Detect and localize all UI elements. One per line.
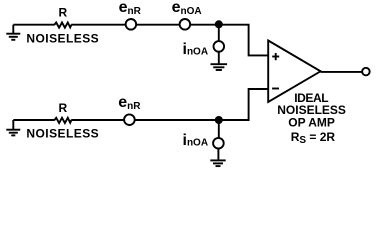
- voltage noise source enOA: [180, 19, 191, 30]
- op-amp U1 (ideal noiseless) triangle: [268, 41, 320, 103]
- wire: bottom rail from GND3 to resistor R (bottom): [13, 119, 55, 121]
- current noise source inOA (top): [214, 41, 225, 52]
- ground GND3 (bottom-left input): [6, 120, 20, 135]
- svg-text:inOA: inOA: [183, 41, 209, 58]
- svg-text:NOISELESS: NOISELESS: [26, 31, 99, 45]
- svg-text:enOA: enOA: [172, 0, 202, 17]
- current noise source inOA (bottom): [213, 138, 224, 149]
- op-amp − input symbol: [272, 88, 279, 90]
- svg-text:enR: enR: [118, 94, 141, 112]
- svg-text:inOA: inOA: [183, 132, 209, 149]
- wire: top junction down to inOA source: [218, 25, 220, 42]
- junction: bottom node (to inOA bottom): [215, 116, 223, 124]
- label: IDEAL NOISELESS OP AMP (op-amp description): [277, 91, 346, 129]
- op-amp + input symbol: [272, 53, 279, 60]
- resistor R (bottom, noiseless): [55, 118, 72, 123]
- svg-text:RS = 2R: RS = 2R: [291, 130, 336, 146]
- wire: bottom junction down to inOA source: [218, 120, 220, 138]
- wire: bottom rail from resistor past enR to corner, up into op-amp − input: [71, 89, 268, 120]
- ground GND1 (top-left input): [6, 25, 20, 40]
- voltage noise source enR (top): [126, 19, 137, 30]
- svg-text:R: R: [59, 101, 68, 115]
- junction: top node (enOA to inOA): [215, 20, 223, 28]
- wire: top rail from resistor past enR and enOA to corner, down into op-amp + input: [71, 25, 268, 56]
- ground GND4 (below bottom inOA): [210, 149, 225, 166]
- svg-text:R: R: [59, 5, 68, 19]
- ground GND2 (below top inOA): [211, 52, 228, 70]
- svg-text:NOISELESS: NOISELESS: [26, 127, 99, 141]
- voltage noise source enR (bottom): [124, 114, 135, 125]
- wire: top rail from GND1 to resistor R (top): [13, 24, 55, 26]
- svg-text:enR: enR: [119, 0, 142, 17]
- svg-text:OP AMP: OP AMP: [288, 115, 335, 129]
- output terminal circle: [362, 68, 370, 76]
- wire: op-amp output: [321, 71, 362, 73]
- resistor R (top, noiseless): [55, 23, 72, 28]
